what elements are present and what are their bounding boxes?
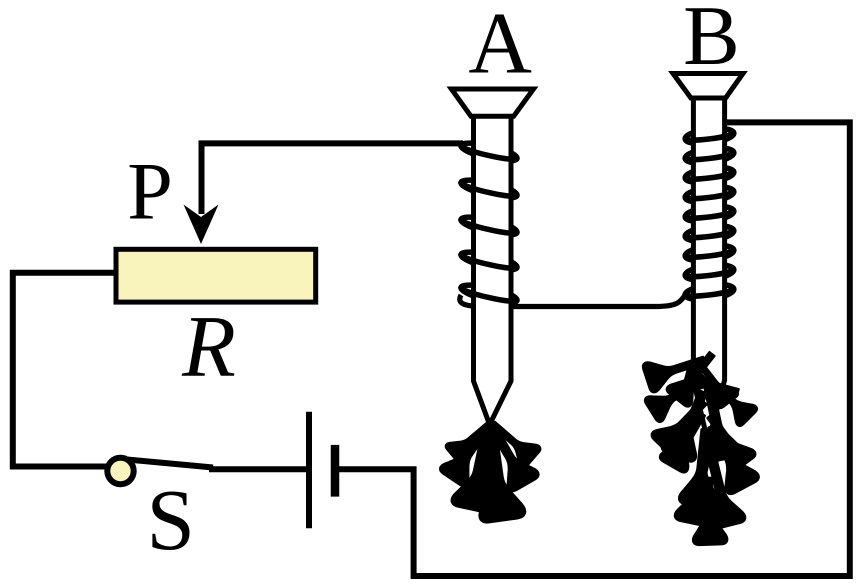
battery long plate (+) xyxy=(306,412,312,529)
wire from battery to bottom rail and up to coil B xyxy=(338,122,850,576)
coil A front strands xyxy=(461,146,517,302)
nail A head xyxy=(451,89,533,116)
nail B head xyxy=(673,74,743,99)
nail B shaft outline xyxy=(693,98,709,449)
screws attracted to nail B xyxy=(642,345,761,545)
switch S lever xyxy=(127,460,213,468)
battery short plate (-) xyxy=(331,445,340,497)
switch S pivot xyxy=(107,458,133,484)
nail A shaft outline xyxy=(474,116,493,432)
coil B back turns xyxy=(684,126,734,302)
electromagnet nail B xyxy=(673,74,743,450)
slider arrow P xyxy=(184,205,219,245)
connecting wire between coil A bottom and coil B bottom xyxy=(460,293,686,307)
rheostat R xyxy=(116,249,316,302)
coil B front strands xyxy=(685,133,734,296)
wire from rheostat R to switch S xyxy=(13,273,114,467)
svg-text:P: P xyxy=(127,146,173,237)
svg-text:S: S xyxy=(147,471,195,568)
svg-text:B: B xyxy=(683,0,740,83)
screws attracted to nail A xyxy=(438,414,542,523)
nail B body (white cover) xyxy=(673,74,743,449)
svg-text:A: A xyxy=(468,0,532,92)
wire from switch S to battery xyxy=(209,466,306,472)
svg-text:R: R xyxy=(181,299,236,396)
wire from slider P to top of coil A xyxy=(202,143,464,214)
electromagnet nail A xyxy=(451,89,533,433)
coil A back turns xyxy=(460,140,519,307)
nail A body (white cover) xyxy=(451,89,533,430)
